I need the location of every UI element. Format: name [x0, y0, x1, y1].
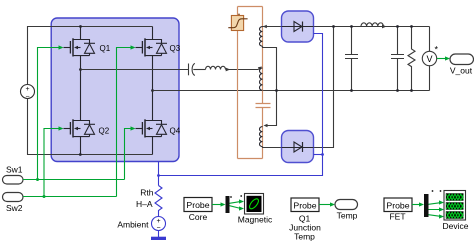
scope Device: [443, 191, 469, 232]
node: left leg output: [79, 68, 82, 71]
node: Sw2 junction: [43, 195, 46, 198]
mux bar 1: [226, 196, 230, 213]
wire: Sw2 gate signal to Q2 and Q3: [23, 48, 132, 197]
svg-text:V_out: V_out: [450, 66, 473, 76]
wire: thermal bus (blue): [159, 34, 323, 186]
winding primary: [259, 68, 262, 90]
air gap: [256, 104, 271, 108]
svg-text:+: +: [156, 218, 160, 225]
node V_out: [450, 54, 474, 76]
svg-text:Sw2: Sw2: [6, 203, 23, 213]
wire arrowhead: Q2 gate: [59, 126, 64, 130]
probe P3 (FET): [384, 198, 412, 222]
wire: left leg verticals: [80, 27, 82, 155]
wire: DC source top to bridge top rail: [28, 27, 153, 85]
svg-text:Ambient: Ambient: [117, 220, 149, 230]
svg-text:Device: Device: [443, 221, 469, 231]
transistor Q4: [136, 119, 181, 137]
wire: DC source bottom to bridge bottom rail: [28, 99, 153, 155]
svg-text:−: −: [25, 94, 29, 101]
node: Sw1 junction: [36, 178, 39, 181]
wire: primary top with DC-block cap and series inductor: [81, 63, 261, 75]
svg-text:H–A: H–A: [136, 199, 153, 209]
node Sw2: [3, 193, 24, 214]
svg-text:Core: Core: [189, 212, 208, 222]
mux bar 2: [424, 194, 429, 217]
scope Magnetic: [238, 194, 273, 225]
wire: mux to scope Device: [429, 203, 441, 217]
wire: probe3 to mux: [412, 204, 421, 206]
diode D1 with heat sink: [282, 11, 314, 42]
node: diode thermal junction: [321, 153, 324, 156]
heat sink (H-bridge): [51, 18, 179, 162]
svg-text:Sw1: Sw1: [6, 165, 23, 175]
svg-text:Q2: Q2: [99, 127, 110, 136]
transistor Q3: [136, 38, 181, 56]
capacitor C1: [345, 27, 358, 91]
svg-text:Q1: Q1: [100, 44, 111, 53]
transistor Q2: [64, 119, 110, 137]
node: bottom rail junction: [79, 153, 82, 156]
svg-text:Temp: Temp: [294, 231, 315, 241]
node Sw1: [3, 165, 24, 185]
diode D2 with heat sink: [282, 131, 314, 163]
wire: Sw1 gate signal to Q1 and Q4: [23, 48, 132, 180]
wire arrowhead: Q3 gate: [131, 45, 136, 49]
node: right leg output: [151, 89, 154, 92]
transistor Q1: [64, 38, 111, 56]
svg-text:Probe: Probe: [293, 200, 316, 210]
wire: center tap: [263, 46, 277, 125]
wire: voltmeter signal to V_out: [437, 58, 447, 60]
ground (thermal): [151, 231, 166, 240]
node Temp: [335, 200, 358, 221]
svg-text:Probe: Probe: [186, 200, 209, 210]
wire: probe2 to Temp: [319, 204, 332, 206]
svg-text:Probe: Probe: [386, 200, 409, 210]
resistor Rload: [408, 27, 415, 91]
saturable core: [228, 14, 247, 31]
node: bridge top rail junction: [79, 25, 82, 28]
source Ambient (temperature): [117, 217, 165, 233]
wire arrowhead: Q1 gate: [59, 45, 64, 49]
probe P2 (Q1 junction temp): [289, 198, 321, 241]
svg-text:FET: FET: [389, 212, 405, 222]
svg-text:Temp: Temp: [337, 210, 358, 220]
winding secondary A: [260, 27, 263, 47]
inductor L1: [361, 23, 383, 27]
wire: secondary A top to rectifier and output rail: [263, 26, 430, 28]
capacitor C2: [391, 27, 404, 91]
svg-text:Q3: Q3: [170, 44, 181, 53]
svg-text:Q4: Q4: [170, 127, 181, 136]
node: thermal junction: [157, 174, 160, 177]
svg-text:*: *: [435, 45, 439, 55]
node: rectifier outputs join: [332, 25, 335, 28]
wire: Q3/Q4 output to return rail (center tap / filter bottom): [153, 90, 430, 92]
wire: secondary B bottom through rectifier 2 up to + rail: [263, 27, 334, 148]
resistor Rth H-A: [155, 186, 162, 217]
svg-text:Rth: Rth: [140, 188, 154, 198]
svg-text:Magnetic: Magnetic: [238, 215, 273, 225]
svg-text:+: +: [25, 86, 29, 93]
voltmeter V: [422, 27, 438, 91]
svg-text:V: V: [426, 54, 432, 64]
wire: mux to scope: [230, 202, 241, 209]
probe P1 (Core): [184, 198, 212, 223]
wire arrowheads into primary winding: [226, 68, 231, 72]
node: center tap junction: [275, 89, 278, 92]
wire: probe to mux: [212, 204, 222, 206]
wire: right leg verticals: [152, 27, 154, 155]
voltage source V_dc: [21, 85, 35, 101]
wire: magnetic loop (orange): [238, 7, 263, 159]
winding secondary B: [260, 127, 263, 147]
wire arrowhead: Q4 gate: [131, 126, 136, 130]
